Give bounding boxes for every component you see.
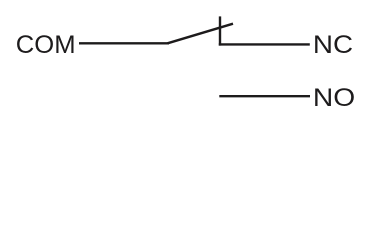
wire NO lead — [219, 95, 310, 97]
svg-text:NC: NC — [313, 31, 353, 59]
switch arm (movable contact from COM) — [168, 24, 234, 44]
wire NC lead — [219, 43, 310, 45]
svg-text:NO: NO — [313, 84, 355, 112]
svg-text:COM: COM — [16, 31, 76, 59]
NC fixed contact bar — [219, 16, 221, 45]
wire COM lead — [79, 42, 169, 44]
